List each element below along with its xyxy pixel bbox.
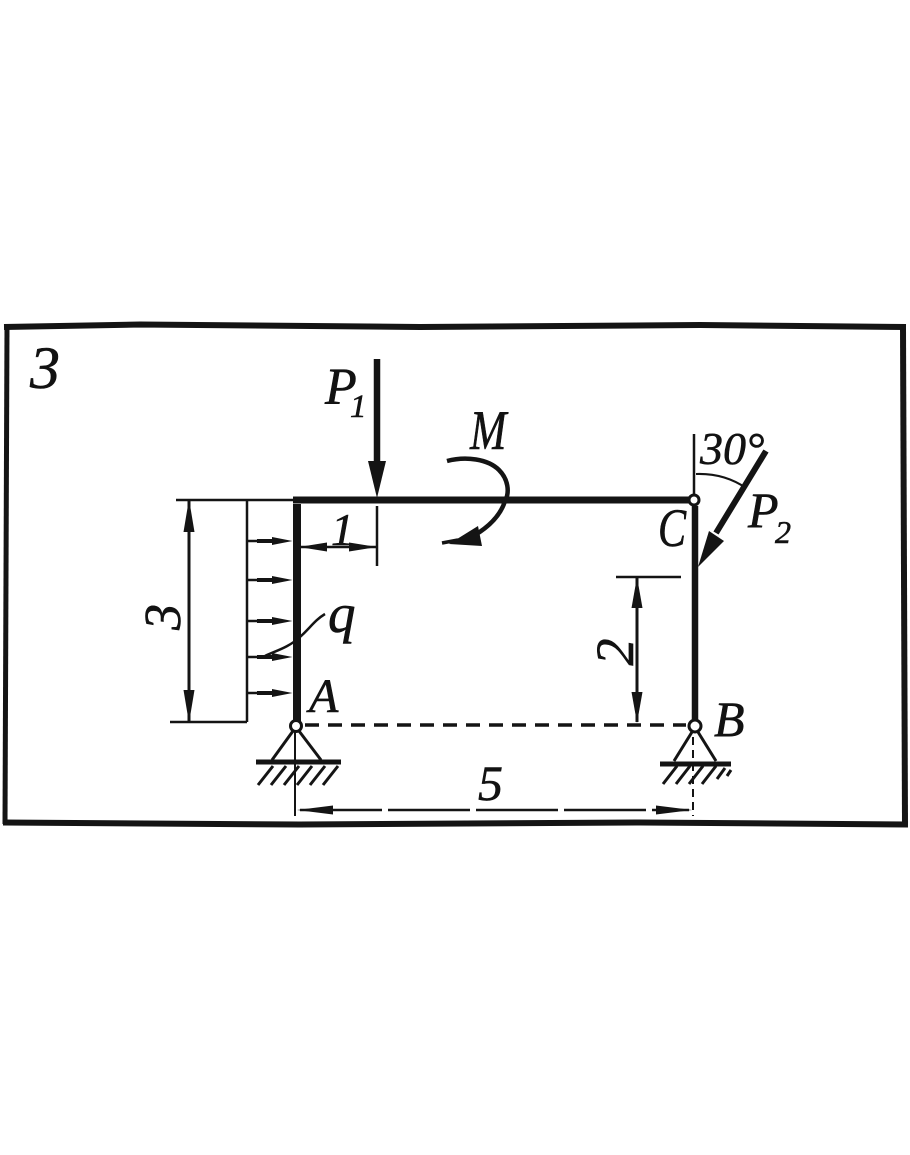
svg-text:3: 3 (29, 335, 60, 401)
svg-text:M: M (469, 399, 509, 461)
svg-text:P: P (747, 482, 779, 538)
svg-text:3: 3 (135, 604, 192, 631)
svg-text:C: C (658, 499, 687, 558)
svg-text:1: 1 (350, 389, 367, 425)
svg-text:A: A (306, 670, 339, 723)
svg-text:30°: 30° (699, 423, 764, 474)
svg-text:1: 1 (331, 504, 354, 555)
svg-text:q: q (328, 583, 356, 644)
svg-text:B: B (714, 691, 745, 747)
svg-text:2: 2 (585, 639, 645, 666)
svg-text:5: 5 (478, 755, 503, 811)
svg-text:2: 2 (775, 514, 791, 550)
